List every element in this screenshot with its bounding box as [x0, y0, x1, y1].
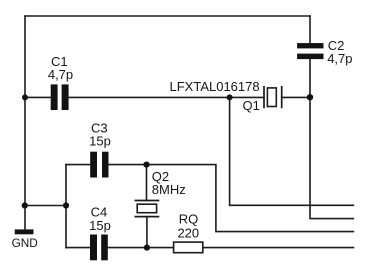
wire Q1 right to node B [282, 96, 310, 98]
wire left rail [24, 16, 26, 206]
crystal Q2 [135, 169, 186, 216]
wire Q2 bottom stem [146, 217, 148, 248]
node main-left junction [22, 94, 28, 100]
ground [12, 229, 38, 250]
svg-text:LFXTAL016178: LFXTAL016178 [170, 79, 260, 94]
wire C2 top stem [309, 16, 311, 43]
capacitor C2 [297, 38, 352, 66]
resistor RQ [174, 212, 203, 253]
node B junction (Q1 right / C2) [307, 94, 313, 100]
wire C3 left lead [66, 164, 90, 166]
svg-text:4,7p: 4,7p [327, 51, 352, 66]
capacitor C4 [89, 204, 111, 260]
node C3/Q2 junction [143, 162, 149, 168]
svg-text:15p: 15p [89, 218, 111, 233]
wire RQ left lead [147, 247, 173, 249]
node A junction (Q1 left) [227, 94, 233, 100]
capacitor C3 [89, 121, 111, 178]
wire Q2 top stem [146, 165, 148, 201]
wire GND drop [24, 206, 26, 230]
svg-text:Q1: Q1 [243, 98, 260, 113]
svg-text:GND: GND [12, 236, 38, 250]
wire C3 right to right stub 3 [109, 165, 354, 232]
wire RQ right stub 4 [203, 247, 353, 249]
node GND-branch junction [63, 202, 69, 208]
svg-text:4,7p: 4,7p [48, 67, 73, 82]
wire node A down to right stub 1 [230, 97, 354, 205]
svg-text:RQ: RQ [179, 212, 199, 227]
wire top rail [25, 15, 310, 17]
wire left cross link [25, 205, 66, 207]
wire C4 left lead [66, 247, 90, 249]
capacitor C1 [48, 54, 73, 110]
svg-text:8MHz: 8MHz [152, 182, 186, 197]
svg-text:220: 220 [177, 226, 199, 241]
wire node left to C1 [25, 96, 51, 98]
svg-text:15p: 15p [89, 133, 111, 148]
wire C2 bottom down to right stub 2 [310, 59, 353, 218]
crystal Q1 [170, 79, 282, 113]
node GND-left junction [22, 202, 28, 208]
wire C4 right lead [108, 247, 147, 249]
wire C1 to Q1 [69, 96, 264, 98]
node C4/Q2 junction [144, 245, 150, 251]
wire left branch rail [65, 165, 67, 248]
